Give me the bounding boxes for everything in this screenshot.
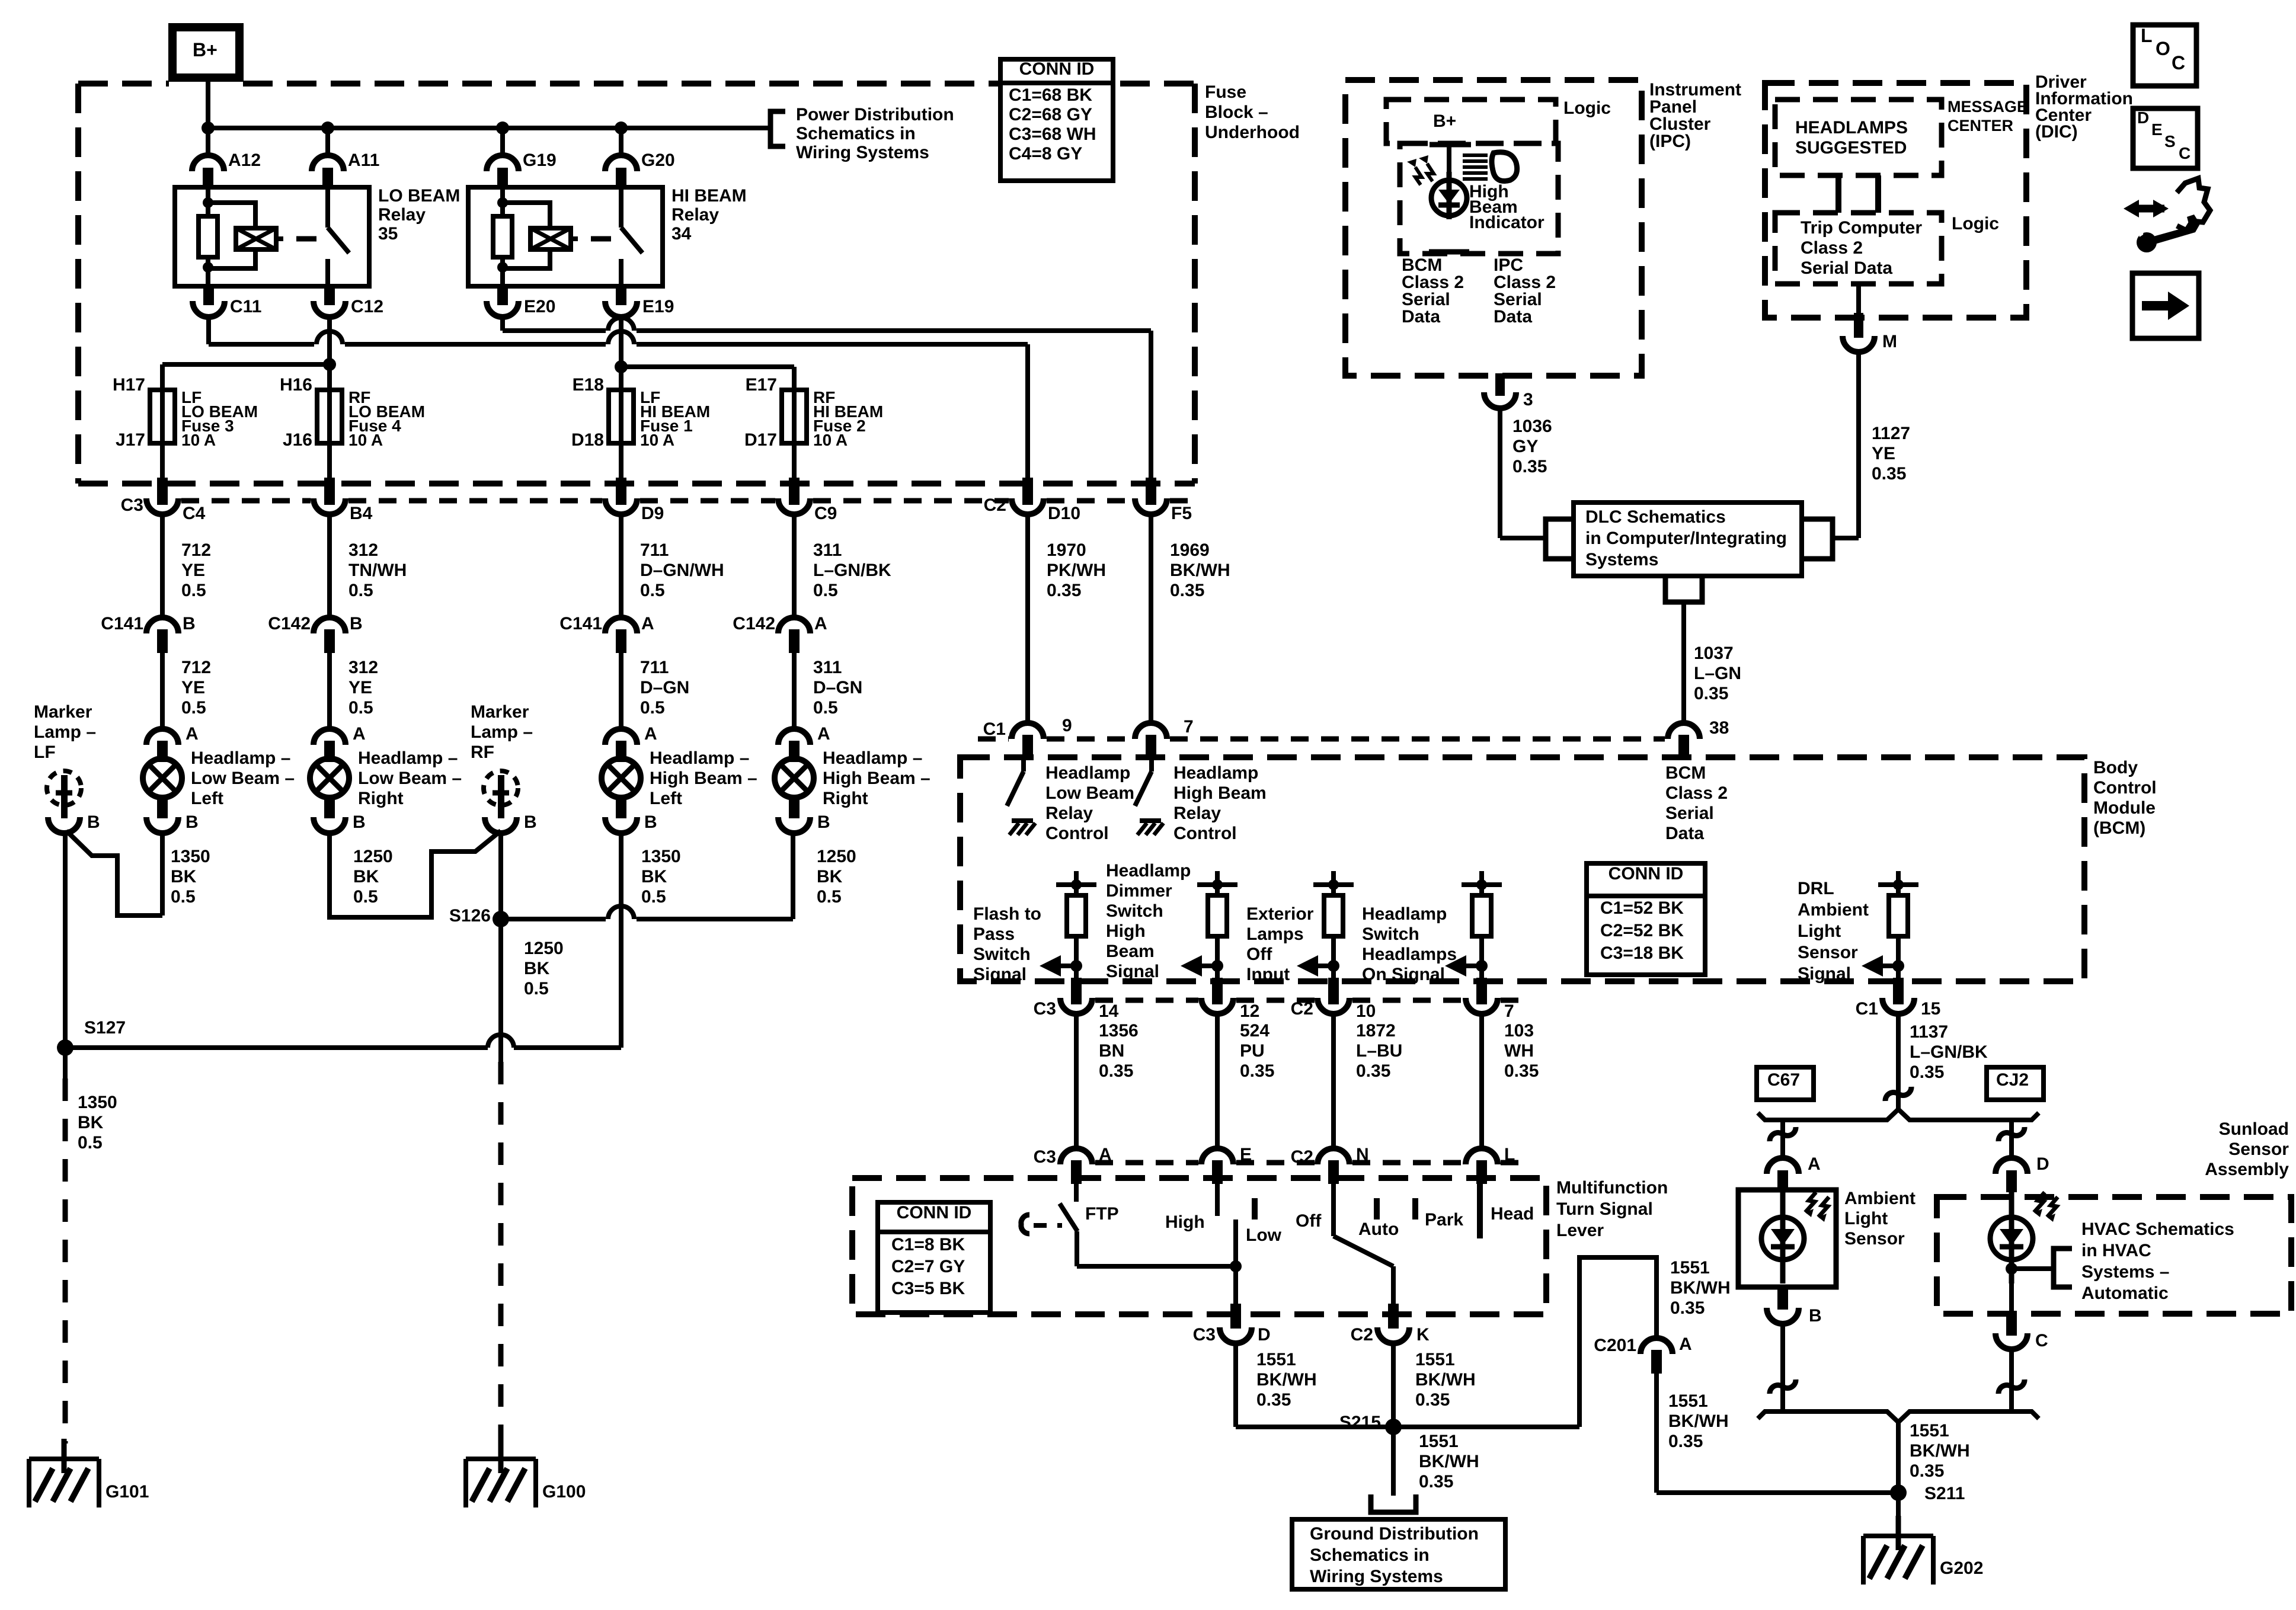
svg-text:1250: 1250	[817, 847, 856, 866]
svg-text:1127: 1127	[1872, 424, 1910, 443]
svg-text:CJ2: CJ2	[1996, 1070, 2029, 1090]
BCM wire to pin 10	[1331, 966, 1336, 981]
svg-text:C1=68 BK: C1=68 BK	[1009, 85, 1092, 105]
BCM pin 7	[1476, 978, 1487, 1004]
svg-text:C4=8 GY: C4=8 GY	[1009, 144, 1082, 164]
splice brace to C67/CJ2	[1758, 1109, 2039, 1120]
wire S211 to G202	[1896, 1493, 1901, 1536]
svg-text:E17: E17	[746, 375, 777, 395]
svg-text:MESSAGE: MESSAGE	[1948, 98, 2028, 116]
svg-text:Ambient: Ambient	[1798, 900, 1869, 920]
junction dimmer output	[1230, 1260, 1242, 1272]
svg-text:BK/WH: BK/WH	[1256, 1370, 1317, 1390]
svg-text:B: B	[183, 614, 196, 633]
svg-text:34: 34	[671, 224, 692, 244]
svg-text:Multifunction: Multifunction	[1556, 1178, 1668, 1198]
wire S127 line to high-left ground	[65, 1045, 488, 1050]
svg-text:Exterior: Exterior	[1246, 904, 1314, 924]
BCM wire to pin 12	[1215, 966, 1220, 981]
svg-text:0.35: 0.35	[1512, 457, 1547, 476]
svg-text:B+: B+	[1433, 111, 1456, 131]
connector C4	[157, 478, 168, 505]
svg-text:B: B	[353, 812, 366, 832]
page ref box C67	[1757, 1067, 1814, 1100]
wire bus to connector G19	[500, 128, 505, 155]
svg-text:Relay: Relay	[671, 205, 719, 225]
svg-text:B: B	[817, 812, 830, 832]
svg-text:Assembly: Assembly	[2205, 1160, 2289, 1179]
connector C1 pin 9	[1012, 723, 1044, 739]
svg-text:Trip Computer: Trip Computer	[1801, 218, 1922, 238]
svg-text:Power Distribution: Power Distribution	[796, 105, 954, 124]
connector C12	[324, 286, 335, 305]
svg-text:712: 712	[181, 658, 211, 677]
svg-text:0.5: 0.5	[348, 581, 373, 600]
headlamp bulb High Beam – Left	[602, 758, 641, 798]
svg-text:Control: Control	[1045, 824, 1109, 843]
svg-text:K: K	[1416, 1325, 1430, 1345]
connector C67 pin A	[1767, 1158, 1799, 1174]
svg-text:PU: PU	[1240, 1041, 1265, 1061]
wire fuse to connector	[327, 443, 332, 481]
power symbol B+ feed box	[172, 27, 239, 78]
conn id table BCM	[1587, 863, 1705, 975]
BCM pin 12	[1212, 978, 1223, 1004]
svg-text:DLC Schematics: DLC Schematics	[1585, 507, 1726, 527]
svg-text:3: 3	[1523, 390, 1533, 409]
wire S126 to G100 solid	[498, 919, 503, 1062]
connector lever pin A	[1060, 1148, 1092, 1164]
wire 1036 GY	[1498, 406, 1502, 538]
DIC message center dashed box	[1775, 100, 1942, 175]
FTP switch wire	[1074, 1184, 1079, 1202]
connector E20	[497, 286, 508, 305]
wire ground bus lever	[1236, 1425, 1579, 1429]
svg-text:Headlamp: Headlamp	[1362, 904, 1447, 924]
relay switch blade	[621, 228, 642, 253]
svg-text:10 A: 10 A	[181, 431, 216, 449]
svg-text:Low Beam –: Low Beam –	[358, 769, 462, 788]
svg-text:7: 7	[1504, 1001, 1514, 1021]
svg-text:RF: RF	[471, 742, 494, 762]
svg-text:Sensor: Sensor	[2228, 1140, 2289, 1159]
svg-text:0.35: 0.35	[1099, 1061, 1133, 1081]
svg-text:Marker: Marker	[34, 702, 92, 722]
svg-text:C4: C4	[183, 504, 206, 523]
wire to HVAC bracket	[2012, 1266, 2054, 1271]
svg-text:9: 9	[1062, 716, 1072, 735]
BCM signal arrow col 10	[1317, 964, 1334, 968]
svg-text:E18: E18	[573, 375, 604, 395]
svg-text:0.5: 0.5	[641, 887, 666, 907]
svg-text:Right: Right	[823, 789, 868, 808]
bus wire from B+ across relays	[208, 126, 770, 130]
svg-text:Headlamp –: Headlamp –	[650, 748, 749, 768]
svg-text:G202: G202	[1940, 1558, 1983, 1578]
BCM pullup rail col 12	[1197, 882, 1237, 887]
svg-text:BK: BK	[171, 867, 197, 886]
junction bus/G19	[496, 121, 509, 135]
headlamp switch park contact	[1412, 1198, 1418, 1219]
svg-text:FTP: FTP	[1085, 1204, 1119, 1224]
splice S126	[493, 911, 509, 927]
svg-text:A: A	[1679, 1334, 1692, 1354]
svg-text:Lamp –: Lamp –	[34, 722, 96, 742]
relay solenoid stub	[276, 236, 283, 241]
svg-text:Headlamp: Headlamp	[1045, 763, 1130, 783]
svg-text:0.35: 0.35	[1415, 1390, 1450, 1410]
svg-text:High Beam: High Beam	[1173, 783, 1267, 803]
wire hop S127 over G100 lead	[488, 1035, 514, 1048]
svg-text:Park: Park	[1425, 1210, 1463, 1230]
svg-text:0.35: 0.35	[1668, 1432, 1703, 1451]
connector C142 pin A	[778, 617, 810, 633]
connector C141 pin B	[146, 617, 178, 633]
svg-text:B+: B+	[193, 39, 218, 60]
svg-text:A: A	[186, 724, 199, 744]
DIC pin M	[1856, 284, 1861, 315]
svg-text:Lever: Lever	[1556, 1221, 1604, 1240]
svg-text:C67: C67	[1767, 1070, 1800, 1090]
relay coil parallel branch	[503, 203, 550, 268]
svg-text:GY: GY	[1512, 437, 1538, 456]
svg-text:0.5: 0.5	[817, 887, 842, 907]
wire 1037 L-GN	[1681, 602, 1686, 722]
svg-text:C11: C11	[230, 297, 261, 316]
svg-text:311: 311	[813, 540, 842, 560]
svg-text:CONN ID: CONN ID	[1609, 864, 1684, 884]
svg-text:Pass: Pass	[973, 924, 1015, 944]
wire bus to connector A12	[206, 128, 210, 155]
svg-text:E: E	[1240, 1145, 1252, 1164]
icon wrench and arrows	[2124, 200, 2139, 217]
svg-text:C3: C3	[121, 495, 143, 515]
bracket to power distribution schematics	[770, 111, 785, 146]
wire to pin D	[1233, 1266, 1238, 1313]
svg-text:1036: 1036	[1512, 417, 1552, 436]
fuse Fuse 2 (RF HI BEAM)	[782, 390, 807, 443]
svg-text:A: A	[1808, 1154, 1821, 1174]
svg-text:S211: S211	[1924, 1484, 1965, 1503]
wire low beam right B jog	[330, 831, 501, 917]
wire circuit 712 YE	[160, 514, 165, 617]
svg-text:0.5: 0.5	[813, 581, 838, 600]
svg-text:B: B	[524, 812, 537, 832]
svg-text:Marker: Marker	[471, 702, 529, 722]
svg-text:Lamps: Lamps	[1246, 924, 1304, 944]
connector B4	[324, 478, 335, 505]
svg-text:(DIC): (DIC)	[2035, 122, 2078, 142]
svg-text:1551: 1551	[1415, 1350, 1455, 1369]
splice S215	[1385, 1419, 1402, 1435]
headlamp bulb High Beam – Right	[775, 758, 814, 798]
svg-text:Systems –: Systems –	[2081, 1262, 2169, 1282]
svg-text:LO BEAM: LO BEAM	[378, 186, 460, 206]
svg-text:1350: 1350	[641, 847, 681, 866]
svg-text:15: 15	[1921, 999, 1940, 1019]
wire circuit 1872	[1331, 1014, 1336, 1148]
svg-text:Schematics in: Schematics in	[1310, 1545, 1430, 1565]
dimmer low output	[1233, 1219, 1238, 1266]
svg-text:CONN ID: CONN ID	[1019, 59, 1095, 79]
icon box DESC	[2133, 108, 2198, 168]
svg-text:Headlamp –: Headlamp –	[191, 748, 290, 768]
wire high beam left B down	[619, 832, 623, 1048]
connector BCM pin 38	[1668, 723, 1700, 739]
relay coil wire lower	[206, 257, 210, 286]
svg-text:10 A: 10 A	[348, 431, 383, 449]
svg-text:Input: Input	[1246, 965, 1290, 984]
connector lever pin E	[1201, 1148, 1233, 1164]
wire to S211	[1896, 1422, 1901, 1493]
svg-text:S127: S127	[84, 1018, 126, 1038]
svg-text:On Signal: On Signal	[1362, 965, 1445, 984]
DIC link bars	[1835, 175, 1841, 213]
svg-text:BN: BN	[1099, 1041, 1124, 1061]
svg-text:D–GN: D–GN	[813, 678, 862, 697]
svg-text:(IPC): (IPC)	[1649, 132, 1691, 151]
svg-text:G100: G100	[542, 1482, 586, 1502]
BCM signal arrow col 14	[1060, 964, 1076, 968]
svg-text:C: C	[2035, 1331, 2048, 1350]
svg-text:A: A	[641, 614, 654, 633]
svg-text:0.35: 0.35	[1694, 684, 1728, 703]
svg-text:D–GN: D–GN	[640, 678, 689, 697]
wire dashed to G100	[498, 1062, 504, 1443]
wire below C142	[327, 653, 332, 730]
svg-text:Off: Off	[1246, 945, 1272, 964]
junction sunload	[2006, 1263, 2017, 1275]
wire B down	[1780, 1323, 1785, 1411]
svg-text:711: 711	[640, 540, 669, 560]
svg-text:Logic: Logic	[1952, 214, 1999, 233]
wire circuit 1969 BK/WH	[1149, 514, 1153, 722]
svg-text:C2: C2	[1291, 999, 1313, 1019]
svg-text:BK/WH: BK/WH	[1668, 1411, 1729, 1431]
headlamp bulb Low Beam – Left	[143, 758, 182, 798]
svg-text:Serial Data: Serial Data	[1801, 258, 1892, 278]
svg-text:Indicator: Indicator	[1469, 213, 1544, 232]
svg-text:Left: Left	[650, 789, 682, 808]
wire fuse to connector	[792, 443, 797, 481]
svg-text:1350: 1350	[78, 1093, 117, 1112]
connector E19	[616, 286, 626, 305]
svg-text:BK/WH: BK/WH	[1419, 1452, 1479, 1471]
svg-text:D17: D17	[744, 430, 777, 450]
svg-text:312: 312	[348, 540, 378, 560]
BCM signal arrow col 7	[1465, 964, 1482, 968]
svg-text:in Computer/Integrating: in Computer/Integrating	[1585, 529, 1787, 548]
connector G19	[487, 155, 519, 171]
svg-text:YE: YE	[181, 678, 205, 697]
svg-text:B: B	[1809, 1306, 1822, 1326]
wire S215 to ground distribution	[1391, 1427, 1396, 1496]
connector B marker	[485, 817, 517, 833]
svg-text:0.35: 0.35	[1872, 464, 1906, 484]
marker lamp LF	[47, 771, 81, 805]
relay coil parallel branch	[208, 203, 255, 268]
BCM pullup rail col 7	[1462, 882, 1502, 887]
fuse Fuse 4 (RF LO BEAM)	[317, 390, 342, 443]
svg-text:S215: S215	[1339, 1413, 1381, 1432]
svg-text:C1: C1	[1856, 999, 1878, 1019]
headlamp switch blade from N	[1331, 1184, 1336, 1236]
FTP momentary hook	[1021, 1215, 1029, 1234]
junction E19 fuse split	[615, 360, 628, 373]
junction bus/A12	[202, 121, 215, 135]
svg-text:L–GN/BK: L–GN/BK	[1910, 1042, 1988, 1062]
svg-text:0.5: 0.5	[640, 698, 665, 718]
svg-text:711: 711	[640, 658, 669, 677]
connector C141 pin A	[605, 617, 637, 633]
connector A12	[192, 155, 224, 171]
wire marker RF down to S126	[498, 832, 503, 919]
svg-text:1872: 1872	[1356, 1021, 1396, 1041]
svg-text:0.5: 0.5	[640, 581, 665, 600]
svg-text:C9: C9	[814, 504, 837, 523]
wire marker LF ground down	[63, 832, 68, 1048]
wire below C142	[792, 653, 797, 730]
BCM DRL signal arrow	[1882, 964, 1898, 968]
wire to fuse 3	[162, 362, 330, 367]
svg-text:Sensor: Sensor	[1844, 1229, 1905, 1249]
svg-text:Dimmer: Dimmer	[1106, 881, 1172, 901]
wire hop over E19 column	[608, 318, 634, 331]
B+ rail indicator	[1430, 142, 1471, 148]
svg-text:C201: C201	[1594, 1336, 1636, 1355]
relay box HI BEAM	[468, 187, 663, 286]
svg-text:Headlamp –: Headlamp –	[358, 748, 458, 768]
wire E19 to hi beam fuses	[619, 315, 623, 367]
svg-text:Low: Low	[1246, 1225, 1282, 1245]
svg-text:35: 35	[378, 224, 398, 244]
svg-text:S126: S126	[449, 906, 491, 926]
svg-text:Off: Off	[1296, 1211, 1322, 1231]
high beam indicator LED	[1447, 146, 1451, 178]
svg-text:14: 14	[1099, 1001, 1119, 1021]
svg-text:C2=7 GY: C2=7 GY	[891, 1257, 965, 1276]
svg-text:High: High	[1165, 1212, 1205, 1232]
relay switch upper stub	[619, 187, 623, 228]
relay coil resistor	[199, 216, 218, 257]
BCM pullup resistor col 12	[1215, 885, 1220, 895]
svg-text:10: 10	[1356, 1001, 1376, 1021]
svg-text:Wiring Systems: Wiring Systems	[1310, 1567, 1443, 1586]
wire hop S126 line over high-left column	[608, 906, 634, 919]
svg-text:A: A	[817, 724, 830, 744]
wire to fuse 4	[327, 364, 332, 390]
svg-text:Beam: Beam	[1106, 942, 1155, 961]
svg-text:High Beam –: High Beam –	[650, 769, 757, 788]
svg-text:Auto: Auto	[1358, 1219, 1399, 1239]
BCM bottom pin row dashed line	[1095, 998, 1198, 1003]
dimmer low contact	[1252, 1198, 1258, 1219]
svg-text:in HVAC: in HVAC	[2081, 1241, 2151, 1260]
svg-text:D10: D10	[1048, 504, 1080, 523]
svg-text:Relay: Relay	[1045, 804, 1093, 823]
svg-text:C3: C3	[1034, 1147, 1056, 1167]
svg-text:0.35: 0.35	[1670, 1298, 1705, 1318]
svg-text:TN/WH: TN/WH	[348, 561, 407, 580]
wire below C141	[619, 653, 623, 730]
svg-text:BK: BK	[524, 959, 550, 978]
connector A headlamp	[605, 729, 637, 745]
HVAC bracket	[2054, 1249, 2072, 1287]
wire C12 to lo beam fuses	[327, 315, 332, 364]
sunload photodiode HVAC	[1990, 1217, 2033, 1260]
svg-text:G19: G19	[523, 151, 557, 170]
svg-text:B: B	[87, 812, 100, 832]
svg-text:C3=68 WH: C3=68 WH	[1009, 124, 1096, 144]
relay switch lower stub	[619, 259, 623, 286]
connector B headlamp	[605, 817, 637, 833]
merge brace below sensors	[1758, 1411, 2039, 1422]
svg-text:C3: C3	[1034, 999, 1056, 1019]
ambient light sensor box	[1738, 1190, 1836, 1287]
wire bus to connector G20	[619, 128, 623, 155]
svg-text:L–GN/BK: L–GN/BK	[813, 561, 891, 580]
svg-text:A: A	[353, 724, 366, 744]
svg-text:L: L	[1504, 1145, 1515, 1164]
BCM pullup rail col 14	[1056, 882, 1096, 887]
relay coil junction bottom	[497, 262, 508, 273]
wire hop over C12 column	[316, 331, 343, 344]
relay actuation dashed link	[591, 236, 611, 242]
svg-text:D: D	[2036, 1154, 2049, 1174]
IPC logic dashed box	[1386, 100, 1556, 143]
svg-text:Module: Module	[2093, 798, 2156, 818]
wire to fuse 1	[619, 367, 623, 390]
svg-text:Body: Body	[2093, 758, 2138, 777]
wire circuit 103	[1479, 1014, 1484, 1148]
svg-text:Turn Signal: Turn Signal	[1556, 1199, 1653, 1219]
FTP switch blade	[1060, 1204, 1077, 1231]
connector A headlamp	[146, 729, 178, 745]
ground G100	[498, 1439, 504, 1473]
DIC logic dashed box	[1775, 213, 1942, 284]
box ground distribution schematics	[1292, 1519, 1505, 1589]
svg-text:1250: 1250	[524, 939, 564, 958]
svg-text:BK: BK	[817, 867, 843, 886]
svg-text:1551: 1551	[1910, 1421, 1949, 1441]
svg-text:Sensor: Sensor	[1798, 943, 1858, 962]
svg-text:B: B	[350, 614, 363, 633]
svg-text:BK/WH: BK/WH	[1670, 1278, 1731, 1298]
relay switch upper stub	[325, 187, 330, 228]
high beam icon beams	[1463, 153, 1488, 157]
wire C crossover	[1998, 1379, 2025, 1394]
svg-text:Control: Control	[1173, 824, 1237, 843]
DLC left bracket	[1546, 519, 1574, 559]
svg-text:C2: C2	[984, 495, 1006, 515]
wire circuit 524	[1215, 1014, 1220, 1148]
svg-text:0.35: 0.35	[1047, 581, 1081, 600]
svg-text:C1: C1	[983, 719, 1006, 739]
svg-text:311: 311	[813, 658, 842, 677]
svg-text:103: 103	[1504, 1021, 1534, 1041]
wire sunload down	[2009, 1238, 2014, 1314]
svg-text:E20: E20	[524, 297, 555, 316]
connector B headlamp	[146, 817, 178, 833]
connector D10	[1022, 478, 1033, 505]
relay coil wire	[500, 187, 505, 216]
svg-text:Signal: Signal	[1798, 964, 1851, 984]
wire FTP output	[1075, 1231, 1079, 1266]
connector lever pin N	[1318, 1148, 1350, 1164]
svg-text:0.5: 0.5	[524, 979, 549, 998]
svg-text:C142: C142	[733, 614, 775, 633]
BCM relay driver high beam	[1149, 757, 1154, 772]
